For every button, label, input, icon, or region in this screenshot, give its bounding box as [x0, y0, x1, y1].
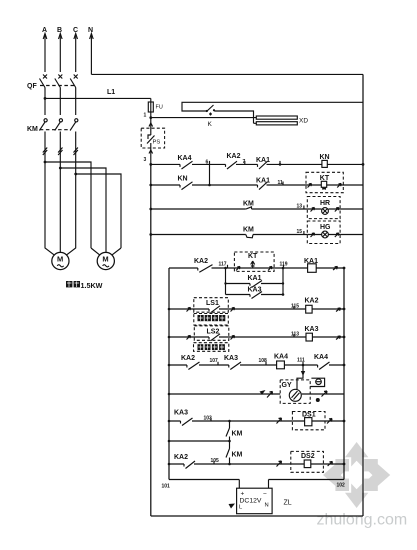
- wire leads motor2: [91, 248, 121, 255]
- svg-text:FU: FU: [156, 105, 163, 111]
- wire to GY: [297, 364, 305, 389]
- svg-text:KA2: KA2: [227, 153, 241, 160]
- svg-text:105: 105: [211, 458, 220, 464]
- rectifier ZL DC12V: [229, 480, 292, 514]
- wire L1: [44, 89, 151, 100]
- motor M2: [97, 252, 114, 269]
- svg-text:117: 117: [219, 262, 227, 268]
- contact KA1 rung1: [256, 157, 270, 169]
- svg-text:DC12V: DC12V: [240, 498, 262, 505]
- wire leads motor1: [45, 162, 76, 255]
- phase A feeder: [42, 27, 47, 72]
- svg-text:KA4: KA4: [178, 155, 192, 162]
- rung LS2 wire: [169, 336, 344, 338]
- phase C feeder: [73, 27, 78, 72]
- contact KA4: [178, 155, 193, 169]
- svg-text:LS2: LS2: [207, 329, 220, 336]
- svg-text:107: 107: [210, 358, 219, 364]
- phase N feeder: [88, 27, 93, 74]
- limit switch LS1: [187, 298, 235, 313]
- svg-text:KA4: KA4: [274, 354, 288, 361]
- rung KA4 wire: [169, 364, 344, 366]
- svg-text:LS1: LS1: [206, 300, 219, 307]
- rung LS1 wire: [169, 308, 344, 310]
- svg-text:KA3: KA3: [224, 355, 238, 362]
- svg-text:A: A: [42, 27, 47, 34]
- svg-text:L1: L1: [107, 89, 115, 96]
- svg-text:HR: HR: [320, 200, 330, 207]
- pressure switch PS: [141, 118, 164, 165]
- node 113: [291, 332, 299, 338]
- svg-text:+: +: [241, 491, 245, 498]
- contact KM rung4: [243, 227, 254, 238]
- node 115: [291, 304, 299, 310]
- svg-text:13: 13: [297, 204, 303, 210]
- svg-text:11: 11: [278, 180, 284, 186]
- svg-text:zhulong.com: zhulong.com: [317, 512, 408, 529]
- overload marks: [43, 148, 78, 156]
- svg-text:1: 1: [144, 113, 147, 119]
- svg-text:KA2: KA2: [305, 298, 319, 305]
- wire branch A to motor2: [44, 161, 91, 248]
- node 6: [206, 160, 210, 166]
- relay DS2: [277, 451, 333, 472]
- relay DS1: [277, 412, 333, 430]
- svg-text:KN: KN: [178, 176, 188, 183]
- svg-text:1.5KW: 1.5KW: [81, 281, 103, 290]
- svg-text:B: B: [57, 27, 62, 34]
- branch contact KA1: [224, 275, 284, 288]
- node 1: [144, 113, 153, 120]
- breaker QF: [27, 75, 78, 116]
- contact KA3: [174, 410, 193, 426]
- label 两台1.5KW: [66, 281, 103, 290]
- rung 4 wire: [151, 234, 363, 236]
- relay coil KA1: [304, 258, 345, 272]
- svg-text:PS: PS: [153, 140, 161, 146]
- wire branch B to motor2: [59, 167, 106, 248]
- svg-text:KA1: KA1: [256, 157, 270, 164]
- time relay KT: [306, 172, 344, 192]
- svg-text:M: M: [57, 255, 63, 264]
- relay coil KA2: [305, 298, 341, 314]
- svg-text:KA2: KA2: [174, 454, 188, 461]
- watermark logo: [323, 442, 390, 508]
- contactor KM main contacts: [27, 119, 78, 174]
- svg-text:DS2: DS2: [301, 453, 315, 460]
- rung DS1 wire: [169, 420, 344, 422]
- node 105: [211, 458, 220, 464]
- svg-text:KA3: KA3: [174, 410, 188, 417]
- motor M1: [52, 252, 69, 269]
- svg-text:QF: QF: [27, 83, 37, 90]
- svg-text:KA1: KA1: [256, 178, 270, 185]
- switch K: [182, 102, 363, 128]
- node 103: [204, 416, 213, 422]
- svg-text:15: 15: [297, 229, 303, 235]
- svg-text:111: 111: [297, 358, 305, 364]
- svg-text:HG: HG: [320, 224, 331, 231]
- left rail: [150, 164, 152, 516]
- svg-text:KM: KM: [232, 431, 243, 438]
- svg-text:KM: KM: [243, 201, 254, 208]
- svg-text:KM: KM: [232, 452, 243, 459]
- contact KA4: [314, 354, 330, 370]
- N wire to right rail: [91, 73, 363, 75]
- time contact KT: [234, 252, 274, 271]
- rung DS2 wire: [169, 463, 344, 465]
- node 108: [259, 358, 268, 365]
- lamp HG: [307, 221, 340, 244]
- svg-text:KA3: KA3: [248, 287, 262, 294]
- right rail: [362, 74, 364, 516]
- svg-text:115: 115: [291, 304, 299, 310]
- label box 后门限位: [194, 343, 229, 352]
- label box 前门限位: [194, 314, 229, 326]
- meter loop: [310, 378, 324, 402]
- wire branch C to motor2: [74, 173, 121, 248]
- contact KA2: [181, 355, 200, 370]
- svg-text:N: N: [265, 503, 269, 509]
- svg-text:6: 6: [206, 160, 209, 166]
- relay coil KA4: [274, 354, 288, 369]
- contact KA2: [174, 454, 195, 469]
- relay coil KN: [320, 154, 365, 167]
- svg-text:3: 3: [144, 157, 147, 163]
- node 117: [219, 262, 228, 269]
- contact KM lower: [226, 441, 243, 464]
- node6 vertical wire: [209, 164, 211, 185]
- connector XD: [254, 116, 309, 125]
- svg-text:KM: KM: [27, 126, 38, 133]
- svg-text:101: 101: [162, 484, 171, 490]
- svg-text:KT: KT: [248, 253, 258, 260]
- phase B feeder: [57, 27, 62, 72]
- node 107: [210, 358, 219, 365]
- svg-text:GY: GY: [282, 382, 292, 389]
- rung 1 wire: [151, 163, 363, 165]
- svg-text:KA1: KA1: [248, 275, 262, 282]
- svg-text:XD: XD: [299, 118, 308, 125]
- node 9 tick: [279, 161, 281, 165]
- svg-text:KM: KM: [243, 227, 254, 234]
- svg-text:KA4: KA4: [314, 354, 328, 361]
- bottom wire: [151, 515, 363, 517]
- rung 2 wire: [151, 184, 363, 186]
- inner rung A wire: [169, 267, 344, 269]
- node 119: [280, 262, 288, 269]
- svg-text:113: 113: [291, 332, 299, 338]
- parallel branch verticals: [226, 268, 284, 295]
- node 11: [278, 180, 284, 186]
- contact KM upper: [226, 420, 243, 441]
- contact KA3: [224, 355, 241, 370]
- lamp HR: [307, 197, 340, 219]
- relay coil KA3: [305, 326, 341, 341]
- svg-text:ZL: ZL: [284, 500, 292, 507]
- inner box bottom wires: [169, 479, 344, 481]
- wire node1 to XD plug: [151, 117, 256, 119]
- contact KA2 rungA: [194, 258, 213, 272]
- node 3: [144, 157, 153, 166]
- svg-text:N: N: [88, 27, 93, 34]
- svg-text:−: −: [263, 491, 267, 498]
- contact KA2 rung1: [226, 153, 241, 169]
- inner box left rail: [168, 268, 170, 480]
- inner box right rail: [343, 268, 345, 480]
- fuse FU: [148, 98, 163, 117]
- node 7: [243, 159, 246, 165]
- contact KM rung3: [243, 201, 254, 210]
- limit switch LS2: [187, 326, 235, 341]
- svg-text:K: K: [208, 121, 213, 128]
- sensor GY: [168, 380, 344, 404]
- contact KA1 rung2: [256, 178, 270, 190]
- node 111: [297, 358, 305, 366]
- contact KN: [178, 176, 193, 190]
- KM branch stub: [169, 440, 230, 442]
- svg-text:KA2: KA2: [194, 258, 208, 265]
- svg-text:M: M: [102, 255, 108, 264]
- svg-text:102: 102: [337, 483, 346, 489]
- node 15: [297, 229, 304, 235]
- branch contact KA3: [226, 287, 285, 299]
- rung 3 wire: [151, 208, 363, 210]
- svg-text:KA2: KA2: [181, 355, 195, 362]
- node 13: [297, 204, 304, 210]
- svg-text:KA3: KA3: [305, 326, 319, 333]
